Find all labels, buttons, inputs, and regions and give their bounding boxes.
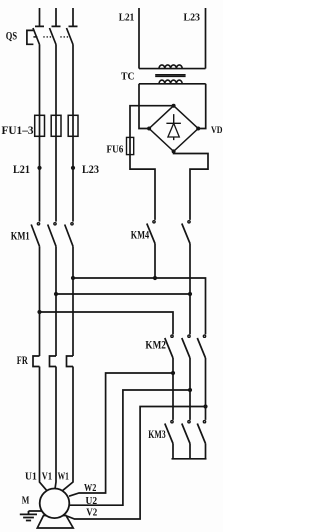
- fuse FU1: [35, 115, 45, 136]
- contactor KM3 label: [148, 427, 165, 441]
- fuse FU3: [68, 115, 78, 136]
- QS pole 2 (phase L2): [50, 8, 61, 45]
- wire W2 branch to motor: [69, 373, 173, 496]
- QS pole 1 (phase L1): [33, 8, 44, 45]
- junction dot phase 3 braking tap: [71, 276, 75, 280]
- motor terminal label U2: [86, 496, 98, 507]
- svg-text:W2: W2: [84, 483, 96, 494]
- svg-text:FU1–3: FU1–3: [2, 123, 34, 137]
- wire secondary left to bridge AC left: [139, 84, 149, 129]
- wire FR to motor W1: [62, 367, 73, 491]
- svg-text:W1: W1: [58, 471, 69, 483]
- junction dot phase 2 braking tap: [54, 292, 58, 296]
- motor terminal label V1: [42, 471, 52, 483]
- svg-text:FR: FR: [17, 355, 28, 367]
- svg-text:KM4: KM4: [131, 227, 149, 241]
- wire phase1 tap to KM2 left contact: [40, 312, 174, 334]
- wire KM1 to FR heater 1: [39, 246, 41, 356]
- wire L21 down to transformer primary: [138, 8, 140, 69]
- thermal relay FR heater 1: [33, 356, 40, 367]
- wire QS to FU2: [55, 45, 57, 116]
- transformer TC secondary winding: [139, 80, 206, 84]
- svg-text:L23: L23: [82, 162, 99, 176]
- wire bridge DC- to KM4 right contact: [174, 151, 208, 220]
- motor terminal label W2: [84, 483, 96, 494]
- rectifier VD label: [211, 126, 223, 136]
- wire QS to FU1: [39, 45, 41, 116]
- thermal relay FR heater 2: [50, 356, 57, 367]
- wire KM2 contact2 to KM3 contact2: [189, 358, 191, 420]
- contactor KM4 contact left: [147, 221, 155, 244]
- motor terminal label W1: [58, 471, 69, 483]
- contactor KM3 contact 1: [165, 421, 173, 444]
- contactor KM3 contact 2: [182, 421, 190, 444]
- fuse FU6 label: [107, 144, 124, 156]
- rectifier bridge VD diamond: [149, 106, 198, 152]
- transformer TC label: [121, 72, 135, 83]
- QS pole 3 (phase L3): [67, 8, 78, 45]
- svg-text:V1: V1: [42, 471, 52, 483]
- thermal relay FR heater 3: [67, 356, 74, 367]
- svg-text:U2: U2: [86, 496, 98, 507]
- QS handle bracket: [27, 30, 34, 44]
- wire phase2 tap to KM4 right bottom: [56, 293, 190, 295]
- control source L21 label: [119, 11, 135, 23]
- junction dot KM4 right / phase2 wire: [188, 292, 192, 296]
- contactor KM2 contact 2: [182, 335, 190, 358]
- wire FR to motor U1: [40, 367, 48, 491]
- wire KM1 to FR heater 2: [55, 246, 57, 356]
- svg-text:VD: VD: [211, 126, 223, 136]
- svg-text:L23: L23: [184, 11, 201, 23]
- motor M body circle: [40, 489, 70, 519]
- junction dot phase 1 delta tap: [37, 310, 41, 314]
- svg-text:KM1: KM1: [11, 229, 30, 243]
- wire KM1 to FR heater 3: [72, 246, 74, 356]
- wire phase3 tap to KM2 right column: [73, 278, 206, 334]
- svg-text:QS: QS: [6, 28, 18, 42]
- thermal relay FR label: [17, 355, 28, 367]
- junction dot KM4 left / phase3 wire: [153, 276, 157, 280]
- svg-text:KM2: KM2: [145, 338, 166, 352]
- node L23 tap dot: [71, 166, 75, 170]
- contactor KM4 label: [131, 227, 149, 241]
- wire FU3 to KM1 contact 3: [72, 136, 74, 221]
- node L23 label: [82, 162, 99, 176]
- junction dot V2 branch: [203, 404, 207, 408]
- wire bridge DC+ to FU6: [130, 106, 174, 138]
- svg-text:TC: TC: [121, 72, 135, 83]
- wire V2 branch to motor: [67, 407, 206, 520]
- disconnect switch QS label: [6, 28, 18, 42]
- wire QS to FU3: [72, 45, 74, 116]
- svg-text:FU6: FU6: [107, 144, 124, 156]
- junction dot U2 branch: [188, 388, 192, 392]
- wire secondary right to bridge AC right: [198, 84, 206, 129]
- svg-text:V2: V2: [86, 507, 97, 518]
- motor M label: [22, 494, 30, 506]
- wire FU2 to KM1 contact 2: [55, 136, 57, 221]
- wire FR to motor V1: [55, 367, 56, 490]
- contactor KM1 contact 1: [31, 223, 39, 247]
- node L21 tap dot: [37, 166, 41, 170]
- ground (protective earth): [20, 511, 42, 521]
- wire L23 down to transformer primary: [205, 8, 207, 69]
- contactor KM3 contact 3: [197, 421, 205, 444]
- rectifier bridge corner dots: [147, 104, 200, 154]
- motor terminal label V2: [86, 507, 97, 518]
- motor M base pedestal: [37, 516, 73, 529]
- svg-text:L21: L21: [13, 162, 30, 176]
- wire KM4 right to KM2 middle contact: [189, 244, 191, 335]
- contactor KM2 label: [145, 338, 166, 352]
- contactor KM1 label: [11, 229, 30, 243]
- contactor KM4 contact right: [182, 221, 190, 244]
- fuse FU2: [51, 115, 61, 136]
- QS linkage dashed line: [33, 36, 37, 38]
- KM3 star point bar: [172, 444, 207, 459]
- wire FU1 to KM1 contact 1: [39, 136, 41, 221]
- wire U2 branch to motor: [69, 390, 190, 505]
- contactor KM1 contact 3: [65, 223, 73, 247]
- transformer TC core: [155, 75, 185, 77]
- wire FU6 to KM4 left contact: [130, 155, 155, 220]
- wire KM2 contact1 to KM3 contact1: [172, 358, 174, 420]
- contactor KM1 contact 2: [48, 223, 56, 247]
- svg-text:M: M: [22, 494, 30, 506]
- contactor KM2 contact 3: [197, 335, 205, 358]
- contactor KM2 contact 1: [165, 335, 173, 358]
- wire KM4 left to phase3 tap junction: [154, 244, 156, 279]
- rectifier bridge inner diode: [166, 114, 181, 140]
- junction dot W2 branch: [171, 371, 175, 375]
- transformer TC primary winding: [139, 65, 206, 69]
- node L21 label: [13, 162, 30, 176]
- svg-text:KM3: KM3: [148, 427, 165, 441]
- svg-text:L21: L21: [119, 11, 135, 23]
- fuse group label FU1-3: [2, 123, 34, 137]
- wire KM2 contact3 to KM3 contact3: [205, 358, 207, 420]
- fuse FU6: [127, 137, 134, 154]
- control source L23 label: [184, 11, 201, 23]
- motor terminal label U1: [25, 471, 37, 483]
- svg-text:U1: U1: [25, 471, 37, 483]
